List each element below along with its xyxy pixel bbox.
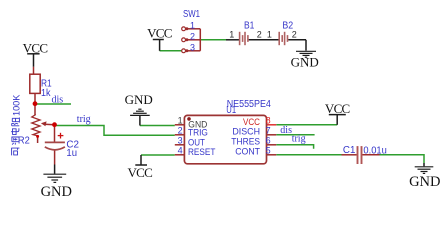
svg-text:trig: trig <box>292 134 306 145</box>
svg-text:1k: 1k <box>41 88 51 99</box>
svg-text:CONT: CONT <box>235 147 260 157</box>
svg-text:VCC: VCC <box>325 101 350 116</box>
svg-text:TRIG: TRIG <box>188 128 208 138</box>
svg-text:SW1: SW1 <box>183 9 200 20</box>
svg-text:dis: dis <box>52 94 64 105</box>
svg-text:trig: trig <box>77 114 91 125</box>
svg-text:VCC: VCC <box>147 25 172 40</box>
svg-text:THRES: THRES <box>231 137 260 147</box>
svg-text:GND: GND <box>409 174 440 190</box>
svg-text:7: 7 <box>266 125 271 135</box>
svg-text:2: 2 <box>178 126 183 136</box>
svg-text:GND: GND <box>291 55 319 70</box>
svg-text:GND: GND <box>125 92 153 107</box>
svg-text:VCC: VCC <box>243 117 260 127</box>
svg-text:R2: R2 <box>18 136 30 147</box>
svg-text:1: 1 <box>267 30 272 40</box>
svg-text:3: 3 <box>190 42 195 52</box>
svg-text:4: 4 <box>178 146 183 156</box>
svg-text:VCC: VCC <box>127 165 152 180</box>
svg-text:1u: 1u <box>66 148 77 159</box>
svg-text:1: 1 <box>190 20 195 30</box>
svg-text:DISCH: DISCH <box>232 127 260 137</box>
svg-text:100K: 100K <box>11 94 22 116</box>
svg-text:2: 2 <box>190 31 195 41</box>
svg-text:RESET: RESET <box>188 147 216 157</box>
svg-text:1: 1 <box>178 116 183 126</box>
svg-text:2: 2 <box>292 30 297 40</box>
svg-text:5: 5 <box>266 145 271 155</box>
svg-text:6: 6 <box>266 135 271 145</box>
svg-text:C1: C1 <box>343 145 356 156</box>
svg-text:GND: GND <box>41 184 72 200</box>
svg-text:8: 8 <box>266 115 271 125</box>
svg-text:2: 2 <box>257 30 262 40</box>
svg-text:1: 1 <box>229 30 234 40</box>
svg-text:U1: U1 <box>226 105 236 116</box>
svg-text:3: 3 <box>178 136 183 146</box>
svg-text:0.01u: 0.01u <box>363 146 386 157</box>
svg-text:B1: B1 <box>244 21 255 32</box>
svg-text:VCC: VCC <box>23 40 48 55</box>
svg-text:dis: dis <box>280 125 292 136</box>
